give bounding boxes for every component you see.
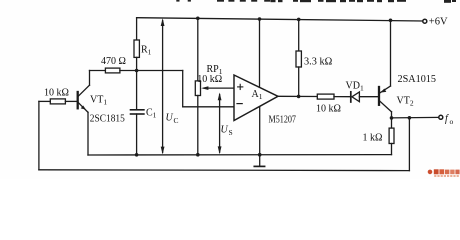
wire op-amp V+ pin from rail (259, 19, 261, 87)
svg-text:f: f (445, 114, 449, 125)
wire fo output (392, 116, 439, 119)
svg-text:2SC1815: 2SC1815 (90, 113, 125, 124)
capacitor C1 (131, 71, 157, 155)
svg-text:10 kΩ: 10 kΩ (44, 87, 69, 98)
output terminal fo (439, 114, 454, 127)
wire outer feedback loop (39, 101, 410, 170)
power terminal +6V (423, 17, 448, 28)
svg-text:VT2: VT2 (397, 95, 414, 107)
svg-text:U: U (221, 125, 229, 136)
transistor VT1 2SC1815 (78, 71, 125, 156)
node dot RP1 top rail (196, 17, 200, 21)
svg-text:o: o (450, 117, 454, 126)
resistor 3.3k (296, 19, 333, 96)
node dot output/3.3k (297, 95, 301, 99)
svg-text:VD1: VD1 (346, 81, 364, 93)
diode VD1 (346, 81, 378, 103)
resistor 1k (363, 118, 395, 155)
resistor R1 (134, 18, 152, 71)
node dot C1/ground rail (135, 153, 139, 157)
svg-text:S: S (229, 128, 233, 137)
svg-text:3.3 kΩ: 3.3 kΩ (304, 56, 333, 67)
node dot feedback loop/fo (408, 116, 412, 120)
watermark logo bottom right (428, 169, 460, 176)
svg-text:U: U (166, 113, 174, 124)
wire op-amp output (278, 95, 317, 97)
annotation arrow Us (218, 93, 233, 155)
resistor 10k (VT2 base drive) (316, 94, 350, 114)
svg-text:VT1: VT1 (90, 94, 107, 106)
node dot V- ground rail (258, 153, 262, 157)
potentiometer RP1 (195, 18, 234, 154)
node dot VT2 emitter rail (389, 19, 393, 23)
svg-text:470 Ω: 470 Ω (101, 56, 126, 67)
wire inner ground rail (88, 154, 392, 156)
resistor 10k (VT1 base) (39, 87, 77, 104)
svg-text:10 kΩ: 10 kΩ (197, 74, 222, 85)
svg-text:C1: C1 (146, 108, 157, 120)
resistor 470 ohm (101, 56, 126, 73)
transistor VT2 2SA1015 (379, 20, 436, 118)
node dot VT2 collector/1k (390, 116, 394, 120)
node dot RP1 ground rail (196, 153, 200, 157)
node dot 3.3k top rail (297, 18, 301, 22)
svg-text:R1: R1 (141, 45, 152, 57)
wire op-amp V- pin to ground (259, 107, 261, 155)
op-amp A1 M51207 (234, 75, 296, 126)
ground (254, 155, 264, 167)
svg-text:+6V: +6V (429, 17, 448, 28)
annotation arrow Uc (161, 18, 179, 154)
node dot V+ rail (258, 17, 262, 21)
svg-text:2SA1015: 2SA1015 (398, 74, 437, 85)
wire Uc node (470/R1/C1 junction to op-amp inverting input) (120, 71, 234, 107)
svg-text:10 kΩ: 10 kΩ (316, 104, 341, 115)
wire +6V top rail (137, 18, 423, 21)
svg-text:1 kΩ: 1 kΩ (363, 133, 383, 144)
node dot R1/470/C1 (135, 69, 139, 73)
svg-text:C: C (174, 116, 179, 125)
svg-text:M51207: M51207 (269, 115, 297, 126)
cropped text fragments top edge (176, 0, 456, 3)
